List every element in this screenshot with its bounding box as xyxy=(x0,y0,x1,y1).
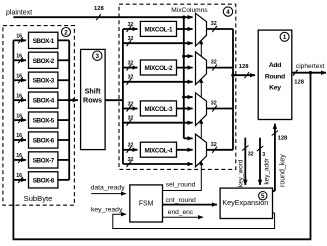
svg-text:SBOX-8: SBOX-8 xyxy=(33,177,55,184)
svg-text:Rows: Rows xyxy=(83,96,102,105)
svg-text:4: 4 xyxy=(226,9,230,16)
svg-text:32: 32 xyxy=(128,116,134,122)
svg-text:SBOX-7: SBOX-7 xyxy=(33,157,55,164)
svg-text:cnt_round: cnt_round xyxy=(166,197,196,204)
svg-text:1: 1 xyxy=(283,34,287,41)
svg-text:SBOX-4: SBOX-4 xyxy=(33,98,55,105)
svg-text:MixColumns: MixColumns xyxy=(171,7,208,14)
svg-text:128: 128 xyxy=(239,64,249,70)
svg-text:32: 32 xyxy=(128,101,134,107)
svg-text:3: 3 xyxy=(262,152,265,158)
svg-text:ciphertext: ciphertext xyxy=(296,63,325,70)
svg-text:128: 128 xyxy=(278,136,288,142)
svg-text:16: 16 xyxy=(16,173,22,179)
svg-text:5: 5 xyxy=(261,193,265,200)
svg-text:MIXCOL-1: MIXCOL-1 xyxy=(145,27,173,34)
svg-text:round_key: round_key xyxy=(280,154,287,187)
svg-text:128: 128 xyxy=(94,6,104,12)
svg-text:32: 32 xyxy=(128,75,134,81)
svg-text:32: 32 xyxy=(128,143,134,149)
svg-text:plaintext: plaintext xyxy=(6,10,32,17)
svg-text:16: 16 xyxy=(16,133,22,139)
svg-text:16: 16 xyxy=(16,34,22,40)
svg-text:32: 32 xyxy=(128,22,134,28)
svg-text:SBOX-3: SBOX-3 xyxy=(33,78,55,85)
svg-text:32: 32 xyxy=(128,60,134,66)
svg-text:sel_round: sel_round xyxy=(166,182,196,189)
svg-text:key_addr: key_addr xyxy=(263,157,270,184)
svg-text:Key: Key xyxy=(269,85,281,92)
svg-text:32: 32 xyxy=(248,152,254,158)
svg-text:SBOX-2: SBOX-2 xyxy=(33,58,55,65)
svg-text:32: 32 xyxy=(211,60,217,66)
svg-text:key_ready: key_ready xyxy=(91,206,123,213)
svg-text:Round: Round xyxy=(265,74,285,81)
svg-text:SBOX-6: SBOX-6 xyxy=(33,138,55,145)
svg-text:16: 16 xyxy=(16,93,22,99)
svg-text:MIXCOL-3: MIXCOL-3 xyxy=(145,106,173,113)
svg-text:SBOX-1: SBOX-1 xyxy=(33,38,55,45)
svg-text:16: 16 xyxy=(16,53,22,59)
svg-text:MIXCOL-2: MIXCOL-2 xyxy=(145,65,173,72)
svg-text:16: 16 xyxy=(16,73,22,79)
svg-text:128: 128 xyxy=(294,79,304,85)
svg-text:SBOX-5: SBOX-5 xyxy=(33,118,55,125)
svg-text:32: 32 xyxy=(128,36,134,42)
svg-text:32: 32 xyxy=(211,142,217,148)
svg-text:Add: Add xyxy=(269,62,281,69)
svg-text:3: 3 xyxy=(96,53,100,60)
svg-text:32: 32 xyxy=(211,21,217,27)
svg-text:data_ready: data_ready xyxy=(91,184,126,191)
svg-text:16: 16 xyxy=(16,153,22,159)
svg-text:SubByte: SubByte xyxy=(24,194,53,203)
svg-text:2: 2 xyxy=(64,29,68,36)
svg-text:32: 32 xyxy=(211,101,217,107)
svg-text:key_word: key_word xyxy=(238,159,245,187)
svg-text:32: 32 xyxy=(128,157,134,163)
svg-text:Shift: Shift xyxy=(85,86,102,95)
svg-text:end_enc: end_enc xyxy=(168,209,194,216)
svg-text:MIXCOL-4: MIXCOL-4 xyxy=(145,147,173,154)
svg-text:16: 16 xyxy=(16,113,22,119)
svg-text:FSM: FSM xyxy=(139,201,154,208)
